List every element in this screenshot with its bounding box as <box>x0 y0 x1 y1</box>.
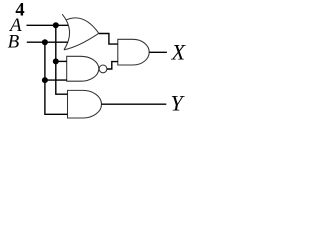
svg-text:X: X <box>171 40 187 65</box>
svg-text:B: B <box>8 31 20 52</box>
